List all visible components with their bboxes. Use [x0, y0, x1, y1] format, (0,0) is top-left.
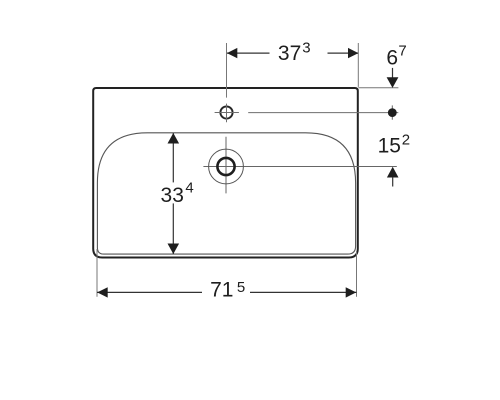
svg-text:2: 2 — [402, 131, 410, 148]
svg-text:15: 15 — [378, 135, 401, 158]
svg-text:7: 7 — [398, 43, 406, 60]
svg-text:37: 37 — [278, 42, 301, 65]
svg-text:5: 5 — [237, 279, 245, 296]
svg-text:3: 3 — [302, 40, 310, 57]
svg-text:4: 4 — [185, 180, 193, 197]
svg-text:71: 71 — [210, 279, 233, 302]
svg-text:6: 6 — [386, 47, 398, 70]
svg-text:33: 33 — [161, 184, 184, 207]
